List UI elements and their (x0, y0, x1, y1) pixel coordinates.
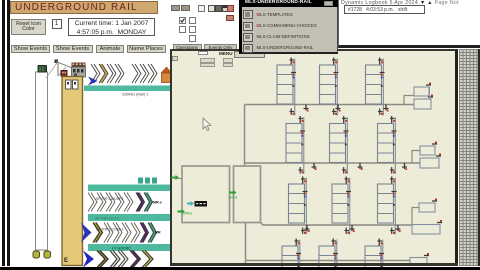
schematic panel bottom border overlay (170, 263, 458, 266)
station S12 (320, 58, 339, 116)
bottom letterbox bar (0, 267, 480, 270)
station S43 (365, 239, 384, 270)
bus row3 (261, 208, 420, 226)
checkbox 1 checked (179, 17, 186, 24)
siding box C3b (412, 220, 442, 234)
signal tick T2b (358, 163, 363, 170)
panel button a (200, 58, 215, 63)
signal tick T1a (304, 105, 309, 112)
station S33 (378, 177, 397, 235)
checkbox 4 (189, 26, 196, 33)
siding box C2a (420, 142, 437, 156)
checkbox 3 (179, 26, 186, 33)
signal tick T2c (402, 163, 407, 170)
green arrow divider (229, 190, 238, 200)
toolbar icon red 2 (226, 15, 234, 21)
track bar 4 (88, 244, 170, 251)
signal tick T2a (312, 163, 317, 170)
cluster1 stem (429, 87, 431, 99)
train row B (81, 223, 157, 243)
siding box C4a (410, 253, 429, 266)
chevron group 1 (91, 64, 124, 83)
tan platform column (62, 77, 83, 266)
green machine icon (38, 66, 47, 73)
bus row4 (246, 260, 411, 262)
signal tick T3a (305, 225, 310, 232)
menu title icon (324, 1, 333, 6)
maroon crate (61, 71, 67, 77)
signal lamp left (33, 251, 40, 258)
menu window (239, 0, 338, 54)
checkbox 5 (189, 35, 196, 42)
big control box (182, 166, 261, 223)
panel button b (200, 63, 215, 67)
logbook entry box (344, 5, 425, 14)
toolbar icon red 1 (227, 5, 234, 12)
button show events 1 (11, 45, 50, 54)
cyan arrow + black label (187, 201, 207, 207)
track bar 3 (88, 214, 170, 221)
svg-text:offline: offline (183, 212, 193, 216)
mouse cursor (203, 118, 211, 130)
desktop hatch strip (459, 49, 478, 266)
crane icon (46, 60, 71, 79)
orange house (161, 67, 173, 83)
blue arrow train (88, 77, 98, 86)
siding box C1a (414, 83, 431, 97)
counter box 1 (52, 19, 62, 29)
green arrow in1 (171, 175, 182, 180)
reset icon color button (11, 19, 46, 35)
toolbar icon outline (198, 5, 205, 12)
button name places (127, 45, 166, 54)
signal tick T3b (350, 225, 355, 232)
menu item 2 (243, 22, 253, 31)
station S23 (378, 116, 397, 174)
white signal column (36, 72, 48, 250)
desktop right edge (478, 49, 480, 266)
left window frame line outer (2, 0, 5, 266)
chevron group 2 (132, 64, 157, 83)
tab operations (173, 44, 202, 50)
signal tick T1b (336, 105, 341, 112)
train row C (83, 251, 153, 268)
menu item 1 (243, 10, 253, 19)
button animate (96, 45, 124, 54)
station building (72, 63, 86, 78)
siding box C2b (420, 154, 441, 169)
train row A (88, 193, 153, 212)
panel text field (234, 51, 265, 58)
menu item 4 (243, 44, 253, 53)
menu title bar (242, 0, 338, 7)
station S41 (282, 239, 301, 270)
tab events only (204, 44, 237, 50)
title bar UNDERGROUND RAIL (10, 1, 158, 14)
panel label MENU (219, 51, 233, 56)
toolbar icon cluster (208, 5, 215, 12)
panel widget white box (198, 51, 208, 56)
panel button d (223, 63, 233, 67)
station S32 (332, 177, 351, 235)
platform window A (66, 80, 72, 89)
track bar 2 (88, 185, 170, 192)
station S31 (289, 177, 308, 235)
menu item 3 (243, 33, 253, 42)
current time box (68, 18, 155, 37)
svg-text:online: online (229, 196, 238, 200)
siding box C1b (414, 95, 433, 110)
station S21 (286, 116, 305, 174)
toolbar icon texture 1 (171, 5, 180, 12)
station S13 (366, 58, 385, 116)
panel button c (223, 58, 233, 63)
station S42 (319, 239, 338, 270)
left window frame line inner (7, 0, 11, 266)
logbook header text (341, 0, 480, 6)
checkbox 2 (189, 17, 196, 24)
siding box C3a (419, 199, 437, 213)
bus row1 (245, 96, 415, 105)
signal lamp right (44, 251, 51, 258)
trunk wire vertical (245, 105, 246, 265)
signal tick T3c (396, 225, 401, 232)
green arrow offline (178, 209, 193, 216)
schematic panel window (170, 49, 458, 265)
station S22 (330, 116, 349, 174)
signal tick T1c (384, 105, 389, 112)
track bar 1 (84, 86, 170, 92)
button show events 2 (53, 45, 93, 54)
platform window B (73, 80, 79, 89)
bus row2 (245, 151, 421, 164)
toolbar icon texture 2 (181, 5, 190, 12)
logbook window (338, 0, 480, 48)
teal wagons above bar2 (138, 178, 157, 184)
panel corner marker (172, 56, 178, 61)
station S11 (277, 58, 296, 116)
